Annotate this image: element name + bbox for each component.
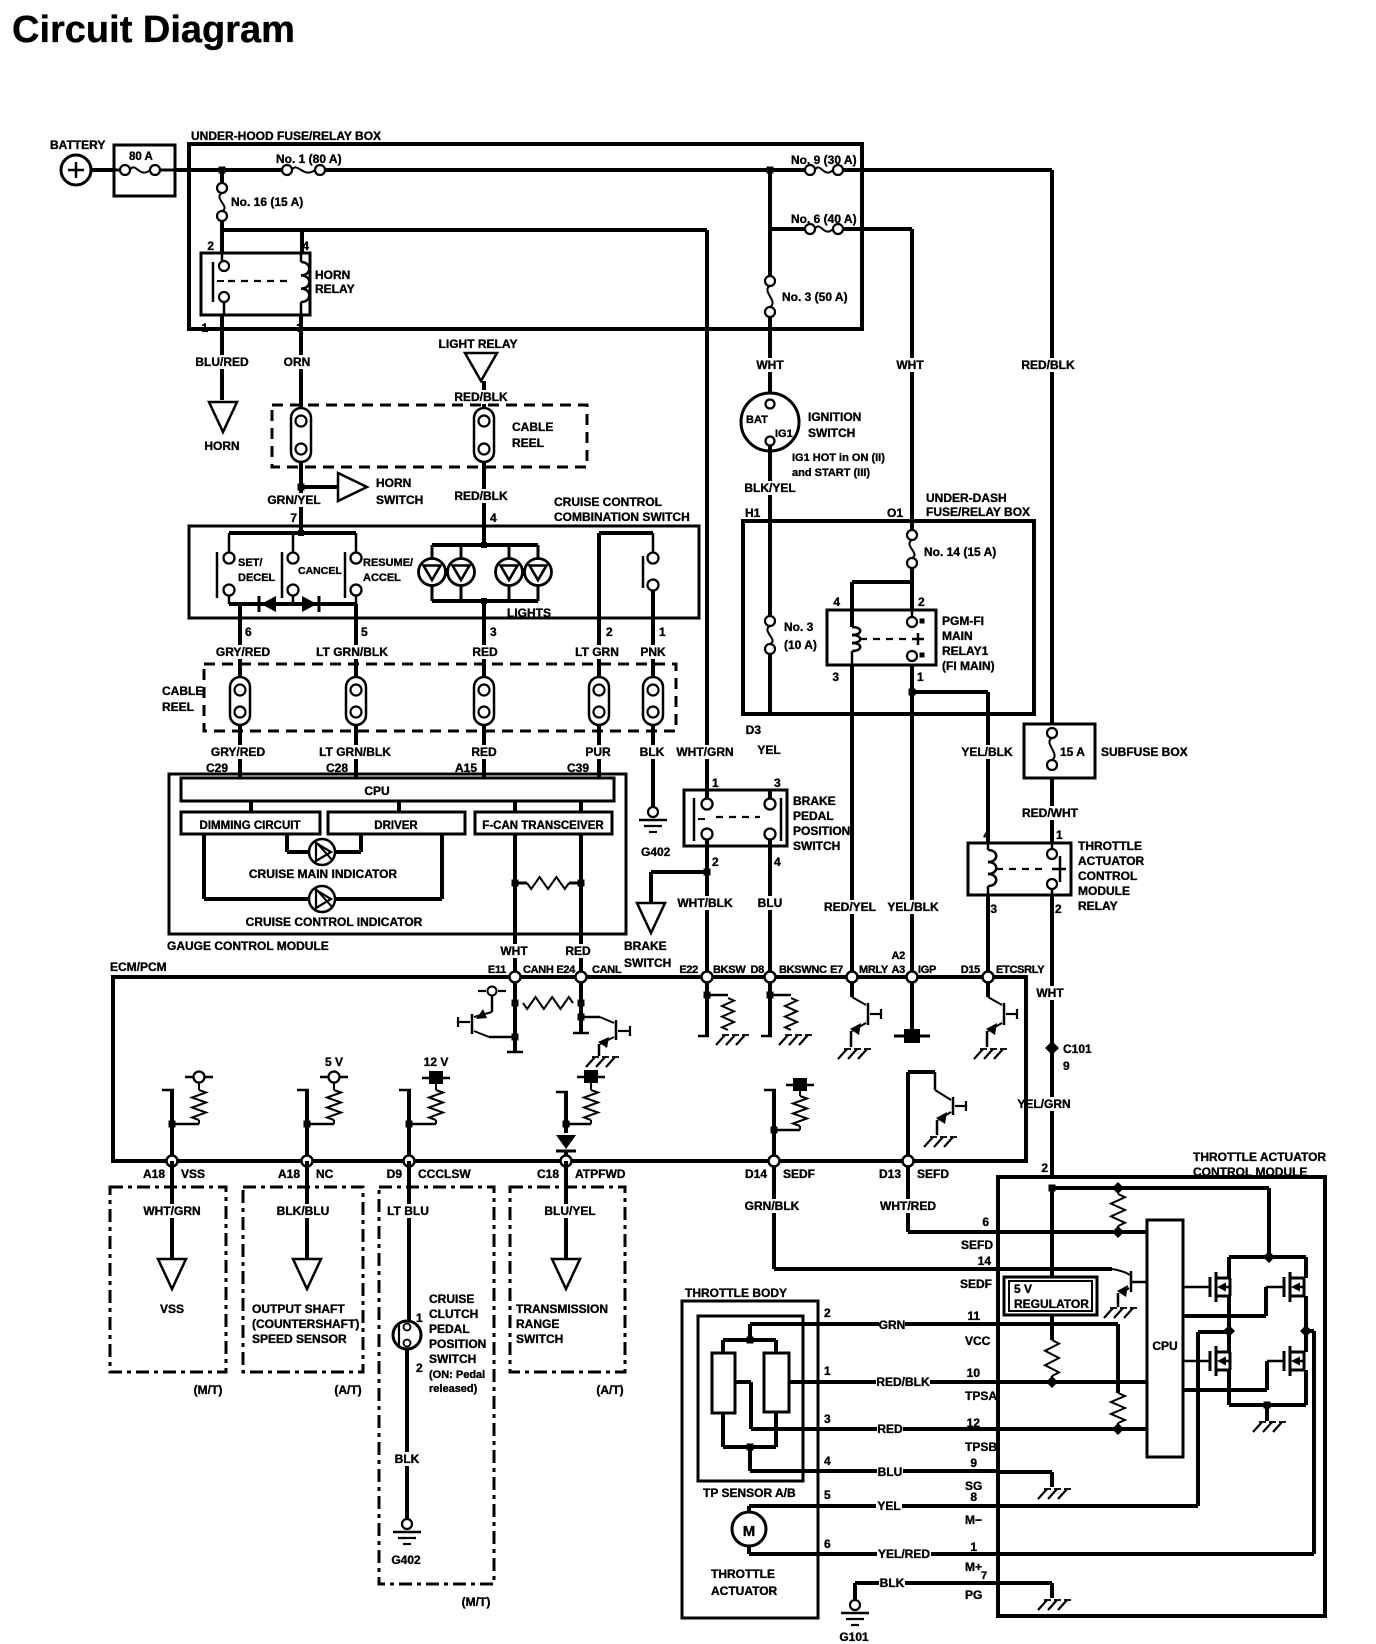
svg-text:8: 8 — [970, 1490, 977, 1504]
wire pin2 internal — [1049, 1185, 1270, 1278]
label D13 SEFD — [879, 1167, 949, 1181]
wire 5V reg out — [1050, 1315, 1054, 1340]
svg-text:ACCEL: ACCEL — [363, 572, 401, 584]
wire BLU sg — [750, 1469, 998, 1473]
label BLU sg — [877, 1465, 903, 1479]
wire colors below comb — [216, 645, 666, 659]
wire M- tap — [1198, 1330, 1229, 1334]
svg-text:MRLY: MRLY — [859, 964, 889, 976]
wires reel to gauge — [240, 725, 599, 778]
label throttle body — [685, 1286, 787, 1300]
pullup ATPFWD — [556, 1070, 605, 1133]
wire pin1 to ECM A3 — [910, 692, 914, 977]
svg-text:HORN: HORN — [204, 439, 239, 453]
resistor VCC-TPSB — [1111, 1393, 1125, 1435]
wire horn relay pin4 riser — [300, 230, 304, 253]
bridge top bus — [1229, 1257, 1306, 1278]
svg-text:(COUNTERSHAFT): (COUNTERSHAFT) — [252, 1317, 359, 1331]
light bulb 4 — [525, 559, 552, 586]
label C18 ATPFWD — [537, 1167, 626, 1181]
svg-text:D8: D8 — [751, 964, 765, 976]
label LIGHTS — [507, 606, 551, 620]
svg-text:6: 6 — [824, 1537, 831, 1551]
ECM/PCM box — [113, 977, 1026, 1161]
svg-text:TPSB: TPSB — [965, 1440, 997, 1454]
svg-text:RED/YEL: RED/YEL — [824, 900, 876, 914]
svg-text:4: 4 — [302, 239, 309, 253]
light bulb 1 — [419, 559, 446, 586]
svg-text:IGP: IGP — [918, 964, 936, 976]
wire NC — [305, 1161, 309, 1259]
svg-text:PEDAL: PEDAL — [429, 1322, 470, 1336]
mosfet Q4 — [1284, 1346, 1304, 1376]
wire relay pin2 down — [1050, 895, 1054, 1177]
label TACM — [1193, 1150, 1326, 1179]
horn relay dashed link — [228, 280, 288, 282]
svg-text:RED/BLK: RED/BLK — [876, 1375, 930, 1389]
ground G402 clutch — [391, 1519, 421, 1567]
brake switch pole 1 — [694, 790, 713, 846]
label A18 VSS — [143, 1167, 205, 1181]
svg-text:IG1 HOT in ON (II): IG1 HOT in ON (II) — [792, 452, 885, 464]
gauge pin labels — [206, 761, 589, 775]
svg-text:G101: G101 — [839, 1630, 869, 1644]
connector node E24 — [576, 972, 587, 983]
svg-text:YEL: YEL — [877, 1499, 900, 1513]
wire bridge feed — [1263, 1188, 1275, 1263]
connector node D15 — [983, 972, 994, 983]
gauge cpu box — [181, 778, 614, 801]
svg-text:(10 A): (10 A) — [784, 638, 817, 652]
wire M+ tap — [1306, 1329, 1314, 1333]
wire BLK pg — [855, 1583, 998, 1601]
label brake pedal position switch — [793, 794, 850, 853]
throttle actuator control module relay box — [968, 843, 1071, 895]
cable reel box lower — [204, 664, 676, 731]
svg-text:released): released) — [429, 1383, 478, 1395]
wire No.16 to horn relay pin2 — [220, 230, 224, 253]
svg-text:HORN: HORN — [315, 268, 350, 282]
wire D8 internal — [761, 977, 772, 1036]
label BLK clutch — [394, 1452, 420, 1466]
connector node E11 — [510, 972, 521, 983]
label (A/T) transmission — [596, 1383, 623, 1397]
svg-text:LIGHTS: LIGHTS — [507, 606, 551, 620]
svg-text:RELAY: RELAY — [1078, 899, 1118, 913]
svg-text:SEFD: SEFD — [961, 1238, 993, 1252]
node pin1 junction — [909, 689, 916, 696]
label CABLE REEL upper — [512, 420, 553, 450]
wire RED/BLK tpsa — [789, 1380, 998, 1384]
svg-text:RELAY: RELAY — [315, 282, 355, 296]
svg-text:COMBINATION SWITCH: COMBINATION SWITCH — [554, 510, 690, 524]
svg-text:HORN: HORN — [376, 476, 411, 490]
svg-text:GRN/BLK: GRN/BLK — [745, 1199, 800, 1213]
connector node D9 — [404, 1156, 415, 1167]
svg-text:CRUISE CONTROL: CRUISE CONTROL — [554, 495, 662, 509]
svg-text:VSS: VSS — [160, 1302, 184, 1316]
svg-text:F-CAN TRANSCEIVER: F-CAN TRANSCEIVER — [482, 820, 604, 832]
svg-text:2: 2 — [606, 625, 613, 639]
wire light reel down — [482, 462, 486, 526]
label E24 CANL — [556, 964, 622, 976]
wire D14 GRN/BLK — [774, 1161, 998, 1269]
CPU box TACM — [1147, 1220, 1183, 1457]
svg-text:No. 6 (40 A): No. 6 (40 A) — [791, 212, 857, 226]
fuse No.9 (30A) — [791, 153, 857, 175]
svg-text:BLK: BLK — [395, 1452, 420, 1466]
horn arrow — [209, 402, 237, 432]
labels under reel — [211, 745, 665, 759]
svg-text:SEDF: SEDF — [960, 1277, 992, 1291]
label output shaft sensor — [252, 1302, 359, 1346]
node bus No.16 tap — [219, 167, 226, 174]
tp sensor box — [698, 1316, 803, 1481]
svg-text:SPEED SENSOR: SPEED SENSOR — [252, 1332, 347, 1346]
label VSS — [160, 1302, 184, 1316]
wire Q1 source — [1223, 1296, 1235, 1352]
diode ATPFWD — [556, 1135, 576, 1161]
label BLK/YEL — [743, 481, 797, 495]
svg-text:2: 2 — [1055, 902, 1062, 916]
svg-text:CABLE: CABLE — [512, 420, 553, 434]
wire brake pin2 down — [705, 846, 709, 977]
svg-text:BLU/RED: BLU/RED — [195, 355, 249, 369]
svg-text:CABLE: CABLE — [162, 684, 203, 698]
svg-text:G402: G402 — [641, 845, 671, 859]
ground CANL — [586, 1057, 619, 1067]
wire horn reel down — [299, 462, 303, 526]
svg-text:WHT/BLK: WHT/BLK — [677, 896, 733, 910]
svg-text:PG: PG — [965, 1588, 982, 1602]
svg-text:M: M — [743, 1523, 756, 1540]
label cruise main indicator — [249, 867, 398, 881]
svg-text:9: 9 — [1063, 1059, 1070, 1073]
svg-text:CPU: CPU — [1152, 1339, 1177, 1353]
tp sensor resistor B — [764, 1353, 789, 1412]
svg-text:RELAY1: RELAY1 — [942, 644, 989, 658]
label pin4 comb — [490, 511, 497, 525]
wires comb to lower reel — [240, 618, 653, 677]
connector node D13 — [903, 1156, 914, 1167]
label cruise clutch switch — [429, 1292, 486, 1395]
svg-text:1: 1 — [917, 670, 924, 684]
node brake switch tap — [704, 869, 711, 876]
label RED tpsb — [877, 1422, 903, 1436]
transistor SEDF tacm — [1112, 1269, 1147, 1307]
tp sensor top bus — [723, 1324, 776, 1353]
pgm-fi relay coil — [852, 627, 860, 665]
svg-text:4: 4 — [983, 828, 990, 842]
svg-text:WHT: WHT — [756, 358, 784, 372]
fuse No.16 (15A) — [217, 170, 303, 230]
label YEL/GRN — [1017, 1097, 1071, 1111]
svg-text:D13: D13 — [879, 1167, 901, 1181]
svg-text:DIMMING CIRCUIT: DIMMING CIRCUIT — [200, 820, 301, 832]
svg-text:1: 1 — [824, 1364, 831, 1378]
cable reel connector light — [474, 408, 494, 462]
svg-text:12: 12 — [967, 1416, 981, 1430]
f-can out wires — [515, 834, 581, 977]
wire WHT vertical to under-dash — [910, 229, 914, 521]
svg-text:CRUISE: CRUISE — [429, 1292, 474, 1306]
pullup SEDF — [764, 1078, 814, 1161]
resistor D8 — [767, 992, 798, 1031]
main switch contacts — [643, 553, 659, 619]
wire subfuse to relay — [1050, 778, 1054, 843]
svg-text:GRN/YEL: GRN/YEL — [267, 493, 320, 507]
svg-text:7: 7 — [290, 511, 297, 525]
label RED/BLK reel top — [454, 390, 508, 404]
pgm-fi main relay box — [827, 610, 936, 665]
svg-text:GRY/RED: GRY/RED — [216, 645, 271, 659]
svg-text:IG1: IG1 — [775, 428, 793, 440]
svg-text:PNK: PNK — [640, 645, 666, 659]
svg-text:5 V: 5 V — [1014, 1282, 1032, 1296]
label WHT under-dash — [896, 358, 924, 372]
svg-text:No. 16 (15 A): No. 16 (15 A) — [231, 195, 303, 209]
label pgm-fi relay — [942, 614, 995, 673]
svg-text:SUBFUSE BOX: SUBFUSE BOX — [1101, 745, 1188, 759]
label BLU/YEL — [543, 1204, 597, 1218]
svg-text:SWITCH: SWITCH — [808, 426, 855, 440]
svg-text:2: 2 — [207, 239, 214, 253]
label WHT relay out — [1036, 986, 1064, 1000]
svg-text:WHT/GRN: WHT/GRN — [676, 745, 733, 759]
svg-text:CLUTCH: CLUTCH — [429, 1307, 478, 1321]
svg-text:2: 2 — [416, 1361, 423, 1375]
svg-text:BLK: BLK — [880, 1576, 905, 1590]
mosfet Q2 — [1284, 1272, 1304, 1302]
svg-text:WHT/RED: WHT/RED — [880, 1199, 936, 1213]
wire brake pin4 down — [768, 846, 772, 977]
label E7 MRLY — [830, 964, 889, 976]
arrow output shaft — [293, 1259, 321, 1289]
svg-text:PEDAL: PEDAL — [793, 809, 834, 823]
svg-text:10: 10 — [967, 1366, 981, 1380]
wire No.6 feed — [770, 227, 810, 231]
ground D8 — [779, 1035, 812, 1045]
label D14 SEDF — [745, 1167, 815, 1181]
brake switch pole 3 — [765, 790, 782, 846]
svg-text:Circuit Diagram: Circuit Diagram — [12, 9, 295, 51]
wire SG internal — [998, 1472, 1052, 1487]
wire 80A box to under-hood box — [175, 168, 191, 172]
svg-text:THROTTLE: THROTTLE — [1078, 839, 1142, 853]
svg-text:THROTTLE ACTUATOR: THROTTLE ACTUATOR — [1193, 1150, 1326, 1164]
svg-text:BKSW: BKSW — [713, 964, 746, 976]
wire E11 internal — [507, 977, 523, 1052]
svg-text:POSITION: POSITION — [793, 824, 850, 838]
svg-text:CANL: CANL — [592, 964, 622, 976]
svg-text:BAT: BAT — [746, 414, 768, 426]
connector node D8 — [765, 972, 776, 983]
svg-text:POSITION: POSITION — [429, 1337, 486, 1351]
svg-text:ACTUATOR: ACTUATOR — [711, 1584, 778, 1598]
subfuse 15A — [1047, 728, 1085, 770]
svg-text:3: 3 — [824, 1412, 831, 1426]
ground SEDF tacm — [1104, 1308, 1137, 1318]
wire BLK to ground — [651, 725, 655, 807]
label BLU — [757, 896, 783, 910]
label (M/T) clutch — [462, 1595, 491, 1609]
svg-text:BLU: BLU — [878, 1465, 903, 1479]
throttle relay coil — [988, 843, 996, 895]
label pin2 TACM — [1041, 1161, 1048, 1175]
label under-hood box — [191, 129, 381, 143]
wire E22 internal — [698, 977, 709, 1036]
f-can transceiver box — [475, 812, 612, 834]
svg-text:RED: RED — [565, 944, 591, 958]
label YEL/RED — [877, 1547, 931, 1561]
svg-text:WHT: WHT — [1036, 986, 1064, 1000]
svg-text:SET/: SET/ — [238, 557, 262, 569]
wire RED tpsb — [751, 1427, 998, 1431]
svg-text:UNDER-DASH: UNDER-DASH — [926, 491, 1007, 505]
lights top bus — [432, 526, 538, 559]
comb pin labels — [245, 625, 666, 639]
brake pedal position switch box — [684, 790, 787, 846]
ground E22 — [716, 1035, 749, 1045]
ground SEFD — [924, 1137, 957, 1147]
label CABLE REEL lower — [162, 684, 203, 714]
svg-text:SEFD: SEFD — [917, 1167, 949, 1181]
transmission range box — [510, 1187, 625, 1372]
wire RED/BLK vertical — [1050, 170, 1054, 724]
TACM box — [998, 1177, 1325, 1616]
svg-text:SWITCH: SWITCH — [429, 1352, 476, 1366]
brake switch arrow — [637, 903, 665, 933]
svg-text:No. 14 (15 A): No. 14 (15 A) — [924, 545, 996, 559]
wire comb pin3 — [482, 601, 486, 618]
svg-text:(A/T): (A/T) — [334, 1383, 361, 1397]
svg-text:RED/BLK: RED/BLK — [454, 390, 508, 404]
fuse No.6 (40A) — [791, 212, 857, 234]
horn relay pin labels — [201, 239, 309, 335]
brake switch pin labels — [712, 776, 781, 869]
arrow VSS — [158, 1259, 186, 1289]
transistor MRLY — [850, 977, 881, 1047]
label transmission range switch — [516, 1302, 608, 1346]
fuse No.3 (50A) — [765, 276, 848, 317]
svg-text:BLU/YEL: BLU/YEL — [544, 1204, 595, 1218]
TACM pin labels left — [960, 1215, 997, 1602]
ground PG — [1038, 1600, 1071, 1610]
svg-text:14: 14 — [978, 1254, 992, 1268]
svg-text:WHT: WHT — [896, 358, 924, 372]
svg-text:RESUME/: RESUME/ — [363, 557, 413, 569]
label IG1 hot — [792, 452, 885, 479]
label under-dash box — [926, 491, 1030, 519]
svg-text:MAIN: MAIN — [942, 629, 973, 643]
label WHT/RED — [880, 1199, 936, 1213]
svg-text:2: 2 — [918, 595, 925, 609]
resistor pin2 — [1111, 1182, 1125, 1238]
svg-text:4: 4 — [833, 595, 840, 609]
svg-text:D9: D9 — [387, 1167, 403, 1181]
svg-text:DRIVER: DRIVER — [374, 820, 418, 832]
svg-text:80 A: 80 A — [129, 151, 153, 163]
svg-text:TP SENSOR A/B: TP SENSOR A/B — [703, 1486, 796, 1500]
svg-text:VCC: VCC — [965, 1334, 991, 1348]
svg-text:DECEL: DECEL — [238, 572, 276, 584]
tp sensor resistor A — [712, 1353, 735, 1413]
svg-text:BATTERY: BATTERY — [50, 138, 105, 152]
label ORN — [284, 355, 311, 369]
mosfet Q1 — [1210, 1272, 1230, 1302]
ground SG — [1038, 1489, 1071, 1499]
label subfuse box — [1101, 745, 1188, 759]
svg-text:BLK: BLK — [640, 745, 665, 759]
connector node E7 — [847, 972, 858, 983]
wire Q1 gate — [1183, 1286, 1210, 1289]
svg-text:15 A: 15 A — [1060, 745, 1085, 759]
svg-text:7: 7 — [981, 1570, 987, 1582]
svg-text:No. 1 (80 A): No. 1 (80 A) — [276, 152, 342, 166]
label LIGHT RELAY — [439, 337, 518, 351]
svg-text:2: 2 — [1041, 1161, 1048, 1175]
pullup VSS — [162, 1072, 213, 1162]
svg-text:3: 3 — [990, 902, 997, 916]
diode left — [259, 596, 276, 612]
label gauge control module — [167, 939, 329, 953]
svg-text:BRAKE: BRAKE — [624, 939, 667, 953]
svg-text:LT GRN: LT GRN — [575, 645, 619, 659]
svg-text:2: 2 — [824, 1306, 831, 1320]
driver box — [328, 812, 465, 834]
subfuse box — [1024, 724, 1095, 778]
comb switch top bus — [229, 526, 356, 553]
combination switch box — [189, 526, 699, 618]
svg-text:1: 1 — [712, 776, 719, 790]
wire bus No.1 to No.9 — [324, 168, 810, 172]
wire horn relay pin3 down — [299, 315, 303, 408]
reel connector LT GRN/BLK — [346, 677, 366, 725]
switch CANCEL — [282, 552, 342, 598]
label WHT/GRN — [676, 745, 733, 759]
label YEL m- — [876, 1499, 902, 1513]
tp wiper A — [735, 1382, 751, 1429]
wire TPSB internal — [998, 1427, 1147, 1431]
label BLU/RED — [195, 355, 249, 369]
wire No.3 to ignition — [768, 316, 772, 400]
wire Q2 gate — [1183, 1287, 1284, 1316]
horn relay coil — [301, 253, 309, 315]
horn switch arrow — [338, 473, 367, 501]
svg-text:(ON: Pedal: (ON: Pedal — [429, 1369, 485, 1381]
throttle relay dashed link — [996, 868, 1044, 870]
wire GRN — [750, 1322, 998, 1326]
svg-text:RED/WHT: RED/WHT — [1022, 806, 1079, 820]
svg-text:RED: RED — [472, 645, 498, 659]
label WHT/GRN vss — [143, 1204, 200, 1218]
ground G101 — [839, 1600, 869, 1644]
wire light relay to reel — [482, 381, 486, 410]
svg-text:and START (III): and START (III) — [792, 467, 870, 479]
svg-text:3: 3 — [490, 625, 497, 639]
svg-text:OUTPUT SHAFT: OUTPUT SHAFT — [252, 1302, 345, 1316]
label H1 — [745, 506, 761, 520]
svg-text:1: 1 — [416, 1311, 423, 1325]
throttle body pin labels — [824, 1306, 831, 1551]
reel connector RED — [474, 677, 494, 725]
label GRN — [879, 1318, 906, 1332]
svg-text:A18: A18 — [278, 1167, 300, 1181]
label (A/T) output — [334, 1383, 361, 1397]
wire D13 WHT/RED — [908, 1161, 998, 1232]
resistor E22 — [704, 992, 735, 1031]
svg-text:3: 3 — [774, 776, 781, 790]
